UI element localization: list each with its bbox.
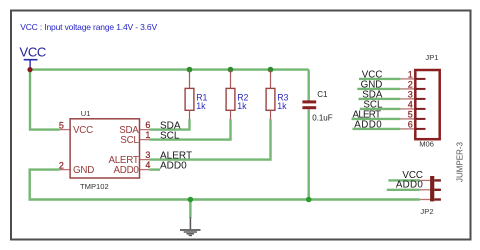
svg-text:VCC: VCC <box>20 45 46 60</box>
svg-text:TMP102: TMP102 <box>80 182 109 191</box>
svg-text:ADD0: ADD0 <box>113 165 139 176</box>
svg-text:M06: M06 <box>419 140 434 149</box>
svg-text:JUMPER-3: JUMPER-3 <box>456 141 465 182</box>
svg-text:VCC: VCC <box>73 125 93 136</box>
svg-text:4: 4 <box>408 100 413 110</box>
svg-text:JP1: JP1 <box>425 53 438 62</box>
svg-text:5: 5 <box>59 121 64 131</box>
svg-text:1k: 1k <box>237 101 247 111</box>
svg-text:2: 2 <box>59 161 64 171</box>
svg-text:C1: C1 <box>317 90 328 99</box>
svg-text:1: 1 <box>408 70 413 80</box>
svg-text:GND: GND <box>73 165 94 176</box>
svg-text:6: 6 <box>145 120 150 130</box>
svg-text:2: 2 <box>408 80 413 90</box>
svg-text:6: 6 <box>408 120 413 130</box>
svg-text:1k: 1k <box>196 101 206 111</box>
svg-text:4: 4 <box>145 160 150 170</box>
svg-text:JP2: JP2 <box>420 207 433 216</box>
svg-text:1k: 1k <box>277 101 287 111</box>
svg-text:ADD0: ADD0 <box>160 161 187 172</box>
svg-text:ADD0: ADD0 <box>396 180 424 191</box>
svg-text:ADD0: ADD0 <box>354 119 382 130</box>
svg-text:5: 5 <box>408 110 413 120</box>
svg-text:0.1uF: 0.1uF <box>312 114 333 123</box>
svg-text:VCC : Input voltage range 1.4V: VCC : Input voltage range 1.4V - 3.6V <box>20 22 157 32</box>
svg-text:U1: U1 <box>81 109 91 118</box>
svg-text:SCL: SCL <box>120 135 139 146</box>
svg-text:SCL: SCL <box>160 130 180 141</box>
svg-text:1: 1 <box>145 130 150 140</box>
svg-text:3: 3 <box>408 90 413 100</box>
svg-text:3: 3 <box>145 150 150 160</box>
